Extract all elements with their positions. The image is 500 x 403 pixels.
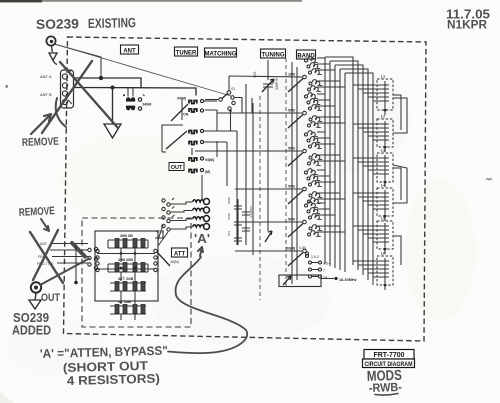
svg-text:L4: L4	[381, 184, 385, 188]
stub hooks section4 to bus	[317, 170, 345, 199]
top edge scan sliver	[0, 0, 42, 2]
svg-text:18M: 18M	[288, 73, 295, 77]
section label box TUNING	[261, 49, 286, 58]
wire to ground	[112, 88, 114, 125]
vertical feed wires center	[217, 84, 253, 255]
dashed shaft line 2	[285, 58, 287, 287]
OUT label box	[169, 163, 184, 172]
section label box BAND	[297, 50, 316, 59]
pencil hook under block	[56, 98, 66, 127]
bold wire J2 to switch wiper	[41, 259, 89, 285]
svg-text:330P+P: 330P+P	[275, 77, 279, 90]
svg-text:S1: S1	[231, 87, 235, 91]
main dashed enclosure border	[64, 37, 427, 341]
ground symbol triangle	[104, 124, 121, 138]
scan shading bottom-left corner	[0, 392, 14, 403]
routing box around RL2	[162, 125, 183, 152]
coil box L4	[353, 165, 407, 221]
attenuator resistor row 2	[108, 258, 148, 272]
svg-text:MATCHING: MATCHING	[205, 51, 237, 57]
stub hooks section1 to bus	[317, 58, 345, 87]
wire down from block	[75, 244, 77, 282]
coil box L5	[353, 217, 401, 266]
wire horizontal bus y87	[73, 88, 196, 96]
svg-text:0-50: 0-50	[299, 246, 306, 250]
REMOVE arrow lower	[41, 219, 49, 231]
band section S2f labeled	[235, 246, 331, 280]
wires atten to filter	[158, 225, 168, 246]
attenuator right wiper	[157, 252, 170, 266]
bus left vertical x340	[339, 69, 341, 270]
output filter coil row 2	[162, 207, 210, 215]
svg-text:949M: 949M	[143, 103, 152, 107]
svg-text:49(M): 49(M)	[170, 260, 179, 264]
output filter coil row 3	[162, 215, 210, 223]
bottom wiper box 18-30MHz	[279, 275, 357, 287]
svg-text:EXISTING: EXISTING	[88, 15, 136, 31]
vertical wires right-center	[292, 62, 297, 284]
attenuator mid rails	[97, 254, 155, 270]
svg-text:7: 7	[323, 269, 325, 273]
ANT terminal block	[61, 70, 74, 108]
VC2 wiper arrow	[265, 231, 272, 242]
coax arrow below J1	[49, 46, 57, 65]
bus U1	[325, 57, 353, 265]
svg-text:18-30MHz: 18-30MHz	[339, 278, 357, 282]
TUNER relay RL1	[171, 97, 217, 122]
section label box TUNER	[175, 47, 198, 56]
ATT label box	[172, 248, 188, 257]
stub hooks section3 to bus	[317, 132, 345, 161]
svg-text:ON: ON	[183, 113, 189, 117]
svg-text:ATT 2dB: ATT 2dB	[118, 277, 134, 281]
svg-text:ANT: ANT	[123, 48, 136, 54]
svg-text:FRT-7700: FRT-7700	[373, 352, 404, 359]
svg-text:L3: L3	[381, 149, 385, 153]
svg-text:(M): (M)	[205, 170, 210, 174]
J2 ground triangle	[29, 300, 41, 309]
TUNER relay RL2	[166, 129, 237, 149]
wire tuning chain vertical	[267, 97, 269, 231]
X cross lower stroke 2	[33, 230, 58, 280]
svg-text:TUNING: TUNING	[262, 52, 285, 58]
svg-text:N1KPR: N1KPR	[447, 20, 488, 32]
attenuator resistor row 4 below	[110, 300, 146, 314]
bus left vertical x335	[334, 65, 336, 268]
attenuator center verticals	[121, 248, 135, 320]
coil box L3	[353, 149, 401, 201]
coil box L1	[353, 75, 401, 131]
bus U5	[345, 73, 373, 285]
attenuator right contacts	[154, 249, 157, 252]
relay contacts 949M pair (ANT select)	[123, 88, 151, 110]
wires to switch	[50, 244, 88, 264]
bus U4	[340, 69, 368, 280]
underline under RWB	[375, 394, 398, 396]
svg-text:50M: 50M	[288, 109, 295, 113]
svg-text:50M: 50M	[288, 147, 295, 151]
output filter coil row 1	[162, 198, 210, 206]
SO239 added connector J2	[31, 282, 41, 292]
bus left vertical x325	[324, 57, 326, 264]
svg-text:4 RESISTORS): 4 RESISTORS)	[67, 372, 160, 388]
svg-text:ANT B: ANT B	[40, 92, 52, 97]
out switch contacts	[88, 248, 91, 251]
bus left vertical x345	[344, 73, 346, 272]
wire relay1 to vert	[205, 110, 217, 131]
X cross lower stroke 1	[30, 232, 63, 283]
band section S2a	[229, 57, 322, 92]
svg-text:94(M): 94(M)	[205, 158, 214, 162]
attenuator resistor row 3	[110, 277, 146, 291]
J2 ground stub	[35, 293, 36, 300]
svg-text:L6: L6	[381, 252, 385, 256]
stub hooks section5 to bus	[317, 203, 345, 232]
svg-text:50(M): 50(M)	[286, 247, 295, 251]
arrow under 'A'	[198, 247, 203, 256]
svg-text:OUT: OUT	[171, 165, 183, 171]
svg-text:L5: L5	[381, 217, 385, 221]
node junction dot B	[111, 86, 115, 90]
scan mark right margin	[486, 179, 492, 181]
long diagonal wire J1 to matching wiper	[56, 45, 231, 97]
capacitor bank	[227, 197, 253, 245]
attenuator left contacts	[96, 249, 99, 252]
stub hooks section2 to bus	[317, 94, 345, 123]
TUNING variable cap VC1	[253, 60, 279, 97]
svg-text:1.9-2: 1.9-2	[311, 255, 319, 259]
svg-text:SO239: SO239	[36, 16, 79, 32]
X cross stroke 1 over ANT block	[60, 62, 118, 128]
section label box ANT	[121, 45, 139, 54]
band section S2e	[237, 202, 322, 237]
svg-text:103: 103	[227, 231, 231, 236]
svg-text:470P: 470P	[227, 213, 231, 220]
REMOVE arrow upper	[31, 114, 51, 134]
node junction dot A	[99, 76, 103, 80]
output filter coil row 4	[156, 224, 210, 234]
CIRCUIT DIAGRAM box	[363, 359, 415, 368]
svg-text:REMOVE: REMOVE	[19, 205, 56, 219]
attenuator resistor row 1	[108, 234, 148, 248]
attenuator outer rect	[95, 231, 158, 301]
svg-text:'A': 'A'	[194, 232, 210, 246]
svg-text:ANT: ANT	[40, 242, 48, 246]
section label box MATCHING	[205, 48, 237, 57]
coil box L6	[353, 252, 393, 291]
svg-text:L1: L1	[381, 75, 385, 79]
band section S2c	[195, 131, 322, 166]
svg-text:OUT: OUT	[41, 292, 60, 304]
attenuator mid node dots	[120, 252, 123, 255]
svg-text:L2: L2	[381, 115, 385, 119]
band section S2d	[235, 169, 322, 204]
wire J1 to junction	[54, 44, 101, 78]
bus U2	[330, 61, 358, 270]
heavy jumper wire added	[72, 243, 85, 257]
left edge scan mark	[6, 85, 8, 88]
dashed shaft line 1	[259, 96, 261, 300]
wire horizontal bus y78	[73, 78, 141, 88]
svg-text:50M: 50M	[288, 218, 295, 222]
svg-text:AT 2dB: AT 2dB	[118, 300, 131, 304]
X cross stroke 2 over ANT block	[42, 61, 92, 133]
filter left bus	[155, 232, 163, 239]
S-curve from text to 'A'	[168, 257, 247, 353]
svg-text:REMOVE: REMOVE	[22, 136, 59, 149]
svg-text:40B 20B: 40B 20B	[118, 258, 133, 262]
svg-text:40B 6B: 40B 6B	[120, 234, 133, 238]
svg-text:ATT: ATT	[174, 251, 186, 257]
TUNER relay RL3 output	[189, 148, 214, 200]
svg-text:ANT A: ANT A	[40, 74, 52, 79]
SO239 existing connector J1	[46, 36, 55, 45]
svg-text:VC1: VC1	[253, 71, 257, 78]
bus left vertical x330	[329, 61, 331, 266]
FRT-7700 box	[364, 350, 414, 360]
svg-text:3.3/250V: 3.3/250V	[249, 206, 253, 218]
matching rotary switch S1	[205, 76, 252, 131]
svg-text:ADDED: ADDED	[12, 324, 51, 338]
svg-text:-RWB-: -RWB-	[369, 380, 402, 395]
paper mottle patches	[60, 135, 200, 225]
bus U3	[335, 65, 363, 275]
svg-text:CIRCUIT DIAGRAM: CIRCUIT DIAGRAM	[365, 362, 413, 368]
svg-text:50M: 50M	[288, 185, 295, 189]
terminal pin tick	[68, 70, 72, 104]
svg-text:100P: 100P	[227, 197, 231, 204]
svg-text:TUNER: TUNER	[176, 50, 197, 56]
band section S2b	[217, 93, 322, 128]
attenuator dashed enclosure	[82, 218, 191, 327]
coil box L2	[353, 98, 407, 152]
